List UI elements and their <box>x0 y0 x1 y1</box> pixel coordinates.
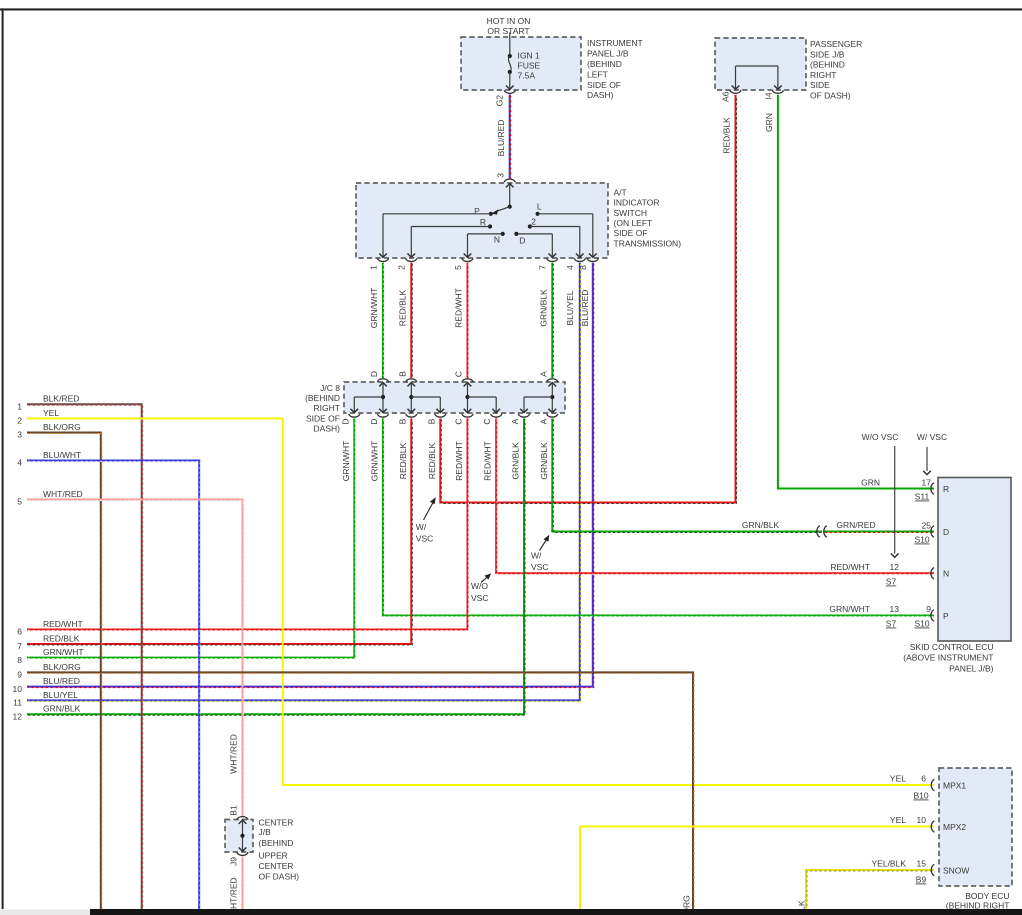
svg-text:RED/WHT: RED/WHT <box>454 288 464 328</box>
svg-text:GRN/WHT: GRN/WHT <box>369 288 379 329</box>
svg-text:B10: B10 <box>913 791 928 801</box>
center J/B label <box>259 818 300 882</box>
svg-text:GRN/BLK: GRN/BLK <box>43 704 81 714</box>
svg-text:VSC: VSC <box>416 534 433 544</box>
svg-text:GRN/BLK: GRN/BLK <box>511 442 521 480</box>
svg-text:WHT/RED: WHT/RED <box>229 734 239 774</box>
wire GRN passenger I4 to skid ECU R <box>778 95 934 489</box>
svg-text:D: D <box>519 235 525 245</box>
svg-text:PANEL J/B: PANEL J/B <box>587 49 629 59</box>
passenger J/B internal jumper <box>732 66 782 89</box>
switch internal wire P to pin 1 <box>379 214 491 257</box>
label 7 RED/BLK <box>17 633 79 651</box>
svg-text:VSC: VSC <box>471 593 488 603</box>
switch wiper from pin 3 <box>491 185 512 215</box>
svg-text:5: 5 <box>17 497 22 507</box>
svg-text:3: 3 <box>17 430 22 440</box>
wire 5 WHT/RED upper <box>27 500 243 817</box>
svg-text:DASH): DASH) <box>314 424 341 434</box>
svg-text:INSTRUMENT: INSTRUMENT <box>587 38 643 48</box>
svg-text:(ON LEFT: (ON LEFT <box>614 218 653 228</box>
body ECU pin MPX1 <box>931 779 966 790</box>
svg-text:SWITCH: SWITCH <box>614 208 648 218</box>
svg-text:RED/BLK: RED/BLK <box>722 117 732 154</box>
svg-text:GRN/BLK: GRN/BLK <box>539 442 549 480</box>
connector A bottom of J/C8 <box>547 414 558 417</box>
svg-text:RED/WHT: RED/WHT <box>43 619 83 629</box>
svg-text:7.5A: 7.5A <box>518 71 536 81</box>
svg-text:BLU/RED: BLU/RED <box>496 120 506 157</box>
instrument panel J/B label <box>587 38 643 100</box>
svg-text:D: D <box>340 418 350 424</box>
svg-text:BODY ECU: BODY ECU <box>965 891 1009 901</box>
svg-text:PASSENGER: PASSENGER <box>810 39 862 49</box>
switch internal wire R to pin 2 <box>408 227 491 258</box>
svg-text:IGN 1: IGN 1 <box>518 51 540 61</box>
svg-text:D: D <box>369 418 379 424</box>
skid control ECU label <box>903 642 993 673</box>
svg-text:11: 11 <box>13 698 22 708</box>
svg-text:MPX2: MPX2 <box>943 822 966 832</box>
svg-text:B: B <box>426 418 436 424</box>
switch contact L <box>536 202 542 216</box>
annotation W/O VSC at C2 corner <box>471 573 491 603</box>
label 9 BLK/ORG <box>17 662 81 680</box>
wire 4 BLU/WHT <box>27 461 200 910</box>
svg-text:S10: S10 <box>914 535 929 545</box>
connector pin 5 of A/T switch <box>462 258 473 261</box>
body ECU label <box>946 891 1010 911</box>
svg-text:GRN/WHT: GRN/WHT <box>370 441 380 482</box>
svg-text:DASH): DASH) <box>587 90 614 100</box>
svg-text:6: 6 <box>921 773 926 783</box>
svg-text:RED/BLK: RED/BLK <box>398 442 408 479</box>
svg-text:OF DASH): OF DASH) <box>810 91 851 101</box>
connector B top of J/C8 <box>406 379 417 387</box>
svg-text:C: C <box>454 418 464 424</box>
svg-text:BLU/YEL: BLU/YEL <box>43 690 78 700</box>
left page border <box>2 8 4 909</box>
svg-text:S10: S10 <box>914 619 929 629</box>
svg-text:2: 2 <box>531 216 536 226</box>
connector pin 8 of A/T switch <box>587 258 598 261</box>
svg-text:B: B <box>397 371 407 377</box>
svg-text:SIDE: SIDE <box>810 80 830 90</box>
switch internal wire L to pin 8 <box>538 214 597 257</box>
svg-text:A/T: A/T <box>614 187 627 197</box>
inline connector on D row <box>817 526 827 537</box>
svg-text:OR START: OR START <box>487 26 529 36</box>
switch contact N <box>494 232 505 245</box>
wire YEL/BLK to body ECU SNOW <box>806 870 935 915</box>
svg-text:10: 10 <box>13 684 23 694</box>
bottom scrollbar track <box>0 910 90 915</box>
svg-text:C: C <box>454 371 464 377</box>
svg-text:S7: S7 <box>886 577 897 587</box>
wire GRN/BLK A2 to inline connector <box>552 418 823 532</box>
svg-text:2: 2 <box>17 416 22 426</box>
svg-text:BLU/YEL: BLU/YEL <box>565 290 575 325</box>
labels YEL 10 <box>890 815 926 825</box>
svg-text:(BEHIND: (BEHIND <box>305 393 340 403</box>
svg-text:SIDE OF: SIDE OF <box>614 228 648 238</box>
svg-text:9: 9 <box>17 670 22 680</box>
connector A bottom of J/C8 <box>518 414 529 417</box>
label 5 WHT/RED <box>17 489 82 507</box>
svg-text:(BEHIND: (BEHIND <box>810 60 845 70</box>
svg-text:YEL/BLK: YEL/BLK <box>872 858 907 868</box>
svg-text:YEL: YEL <box>43 408 59 418</box>
svg-text:P: P <box>943 611 949 621</box>
connector I4 <box>772 90 783 93</box>
svg-text:BLK/RED: BLK/RED <box>43 394 79 404</box>
J/C8 internal branch B <box>408 383 445 413</box>
svg-text:GRN/WHT: GRN/WHT <box>829 604 870 614</box>
wire 3 BLK/ORG <box>27 433 102 910</box>
svg-text:8: 8 <box>17 655 22 665</box>
svg-text:W/: W/ <box>416 522 427 532</box>
svg-text:SIDE J/B: SIDE J/B <box>810 49 845 59</box>
svg-text:BLK/ORG: BLK/ORG <box>43 422 81 432</box>
svg-text:RED/BLK: RED/BLK <box>397 289 407 326</box>
label 10 BLU/RED <box>13 676 80 694</box>
wire GRN/BLK A1 to row12 <box>27 418 525 715</box>
switch contact 2 <box>528 216 536 228</box>
svg-text:GRN: GRN <box>861 477 880 487</box>
svg-text:(BEHIND: (BEHIND <box>259 838 294 848</box>
svg-text:LEFT: LEFT <box>587 69 608 79</box>
svg-text:BLK/ORG: BLK/ORG <box>43 662 81 672</box>
A/T indicator switch label <box>614 187 682 248</box>
connector A6 <box>730 90 741 93</box>
svg-text:GRN/RED: GRN/RED <box>836 520 875 530</box>
svg-text:S11: S11 <box>915 492 930 502</box>
svg-text:TRANSMISSION): TRANSMISSION) <box>614 238 682 248</box>
svg-text:A6: A6 <box>721 91 731 102</box>
svg-text:SKID CONTROL ECU: SKID CONTROL ECU <box>910 642 994 652</box>
svg-text:BLU/RED: BLU/RED <box>580 290 590 327</box>
connector D bottom of J/C8 <box>349 414 360 417</box>
annotation W/ VSC above skid ECU <box>917 432 947 475</box>
switch contact P <box>474 206 493 216</box>
svg-text:17: 17 <box>922 477 932 487</box>
wire RED/WHT C1 to row6 <box>27 418 468 630</box>
svg-text:C: C <box>482 418 492 424</box>
svg-text:7: 7 <box>538 265 548 270</box>
svg-text:J/C 8: J/C 8 <box>320 383 340 393</box>
wire GRN/RED inline connector to skid ECU D <box>824 531 935 534</box>
wire RED/BLK B2 to passenger J/B A6 <box>440 95 736 504</box>
wire GRN/WHT D2 to skid ECU P <box>383 418 935 616</box>
J/C 8 junction connector box <box>344 382 565 413</box>
svg-text:S7: S7 <box>886 619 897 629</box>
fuse output wire with arrow <box>506 72 514 89</box>
body ECU pin MPX2 <box>931 821 966 832</box>
svg-text:FUSE: FUSE <box>518 61 541 71</box>
svg-text:CENTER: CENTER <box>259 818 294 828</box>
svg-text:J/B: J/B <box>259 827 272 837</box>
svg-text:N: N <box>494 234 500 244</box>
center J/B internal wire <box>239 821 247 851</box>
label 11 BLU/YEL <box>13 690 78 708</box>
labels GRN 17 S11 <box>861 477 931 501</box>
labels RED/WHT 12 S7 <box>830 562 899 587</box>
svg-text:RED/BLK: RED/BLK <box>427 442 437 479</box>
labels GRN/BLK GRN/RED 25 S10 <box>742 520 931 545</box>
svg-text:9: 9 <box>926 604 931 614</box>
svg-text:CENTER: CENTER <box>259 861 294 871</box>
svg-text:25: 25 <box>922 520 932 530</box>
svg-text:INDICATOR: INDICATOR <box>614 198 660 208</box>
svg-text:B9: B9 <box>916 875 927 885</box>
body ECU box <box>939 768 1012 886</box>
svg-text:GRN/BLK: GRN/BLK <box>538 289 548 327</box>
label 4 BLU/WHT <box>17 450 81 468</box>
connector pin 2 of A/T switch <box>406 258 417 261</box>
connector pin 7 of A/T switch <box>547 258 558 261</box>
connector G2 <box>504 90 515 93</box>
svg-text:15: 15 <box>917 858 927 868</box>
connector C bottom of J/C8 <box>491 414 502 417</box>
connector pin 3 of A/T switch <box>504 179 515 187</box>
wire RED/BLK B1 to row7 <box>27 418 412 645</box>
svg-text:YEL: YEL <box>890 815 906 825</box>
skid ECU pin N <box>931 568 949 579</box>
svg-text:SNOW: SNOW <box>943 865 969 875</box>
instrument panel J/B box <box>461 37 581 90</box>
svg-text:W/: W/ <box>531 551 542 561</box>
svg-text:RIGHT: RIGHT <box>810 70 836 80</box>
connector D top of J/C8 <box>377 379 388 387</box>
svg-text:J9: J9 <box>229 857 239 866</box>
label 1 BLK/RED <box>17 394 79 412</box>
svg-text:YEL: YEL <box>890 773 906 783</box>
svg-text:R: R <box>480 217 486 227</box>
svg-text:R: R <box>943 484 949 494</box>
wire 5 WHT/RED lower <box>242 857 245 910</box>
J/C8 internal branch A <box>520 383 556 413</box>
svg-text:N: N <box>943 569 949 579</box>
switch internal wire D to pin 7 <box>516 234 556 257</box>
switch contact R <box>480 217 492 229</box>
bottom black bar <box>90 909 1022 915</box>
top page border <box>0 8 1022 10</box>
connector B bottom of J/C8 <box>435 414 446 417</box>
svg-text:4: 4 <box>565 265 575 270</box>
svg-text:BLU/WHT: BLU/WHT <box>43 450 81 460</box>
svg-text:B1: B1 <box>229 805 239 816</box>
svg-text:VSC: VSC <box>531 562 548 572</box>
skid ECU pin D <box>931 526 949 537</box>
svg-text:5: 5 <box>453 265 463 270</box>
svg-text:GRN/WHT: GRN/WHT <box>43 647 84 657</box>
svg-text:SIDE OF: SIDE OF <box>306 414 340 424</box>
connector D bottom of J/C8 <box>377 414 388 417</box>
wire BLU/RED vertical <box>509 95 512 180</box>
labels YEL 6 B10 <box>890 773 929 800</box>
svg-text:D: D <box>369 371 379 377</box>
label 6 RED/WHT <box>17 619 82 637</box>
switch internal wire 2 to pin 4 <box>530 227 584 258</box>
labels GRN/WHT 13 S7 9 S10 <box>829 604 931 628</box>
svg-text:W/O VSC: W/O VSC <box>862 432 899 442</box>
svg-text:BLU/RED: BLU/RED <box>43 676 80 686</box>
svg-text:4: 4 <box>17 458 22 468</box>
svg-text:G2: G2 <box>495 95 505 107</box>
connector C top of J/C8 <box>462 379 473 387</box>
J/C 8 label <box>305 383 340 434</box>
wire GRN/BLK pin7 <box>551 263 554 379</box>
svg-text:7: 7 <box>17 641 22 651</box>
svg-text:W/O: W/O <box>471 581 488 591</box>
svg-text:GRN: GRN <box>764 113 774 132</box>
svg-text:A: A <box>510 418 520 424</box>
label 12 GRN/BLK <box>13 704 81 722</box>
passenger side J/B label <box>810 39 862 101</box>
svg-text:(ABOVE INSTRUMENT: (ABOVE INSTRUMENT <box>903 653 993 663</box>
connector pin 4 of A/T switch <box>574 258 585 261</box>
svg-text:RED/BLK: RED/BLK <box>43 633 80 643</box>
svg-text:GRN/BLK: GRN/BLK <box>742 520 780 530</box>
passenger side J/B box <box>715 38 806 90</box>
svg-text:OF DASH): OF DASH) <box>259 871 300 881</box>
connector B1 of center J/B <box>237 817 248 824</box>
wire YEL to body ECU MPX2 <box>580 827 934 915</box>
J/C8 internal branch D <box>351 383 387 413</box>
svg-text:1: 1 <box>368 265 378 270</box>
A/T indicator switch box <box>356 183 608 258</box>
svg-text:12: 12 <box>13 712 23 722</box>
svg-text:PANEL J/B): PANEL J/B) <box>949 663 994 673</box>
wire 1 BLK/RED <box>27 404 143 910</box>
label 3 BLK/ORG <box>17 422 81 440</box>
wire BLU/YEL pin4 down to row11 <box>27 263 581 702</box>
switch internal wire N to pin 5 <box>464 234 503 257</box>
svg-text:L: L <box>537 202 542 212</box>
skid ECU pin R <box>931 483 949 494</box>
wire 2 YEL to body ECU MPX1 <box>27 419 934 786</box>
svg-text:RIGHT: RIGHT <box>314 403 340 413</box>
wire RED/WHT C2 to skid ECU N <box>496 418 935 574</box>
svg-text:GRN/WHT: GRN/WHT <box>341 441 351 482</box>
svg-text:3: 3 <box>495 173 505 178</box>
svg-text:A: A <box>538 371 548 377</box>
skid ECU pin P <box>931 610 949 621</box>
wire BLU/RED pin8 down to row10 <box>27 263 594 688</box>
svg-text:2: 2 <box>397 265 407 270</box>
svg-text:12: 12 <box>890 562 900 572</box>
annotation W/O VSC above skid ECU <box>862 432 899 557</box>
svg-text:13: 13 <box>890 604 900 614</box>
svg-text:MPX1: MPX1 <box>943 780 966 790</box>
svg-text:RED/WHT: RED/WHT <box>483 441 493 481</box>
skid control ECU box <box>938 478 1011 642</box>
wire GRN/WHT D1 to row8 <box>27 418 355 658</box>
svg-text:UPPER: UPPER <box>259 850 288 860</box>
fuse IGN 1 7.5A <box>508 51 541 81</box>
label 2 YEL <box>17 408 59 426</box>
connector C bottom of J/C8 <box>462 414 473 417</box>
svg-text:HOT IN ON: HOT IN ON <box>487 16 531 26</box>
wire RED/WHT pin5 <box>467 263 470 379</box>
switch contact D <box>514 232 525 246</box>
annotation W/ VSC at B2 corner <box>416 497 436 543</box>
svg-text:I4: I4 <box>763 92 773 99</box>
HOT IN ON OR START caption <box>487 16 531 36</box>
svg-text:(BEHIND: (BEHIND <box>587 59 622 69</box>
annotation W/ VSC at A2 corner <box>531 535 549 572</box>
feed wire into fuse <box>509 33 511 57</box>
svg-text:WHT/RED: WHT/RED <box>43 489 83 499</box>
svg-text:10: 10 <box>917 815 927 825</box>
svg-text:RED/WHT: RED/WHT <box>830 562 870 572</box>
wire 9 BLK/ORG <box>27 672 694 910</box>
svg-text:1: 1 <box>17 402 22 412</box>
connector B bottom of J/C8 <box>406 414 417 417</box>
label 8 GRN/WHT <box>17 647 83 665</box>
svg-text:SIDE OF: SIDE OF <box>587 80 621 90</box>
center J/B box <box>225 820 253 853</box>
labels YEL/BLK 15 B9 <box>872 858 927 884</box>
svg-text:D: D <box>943 527 949 537</box>
svg-text:W/ VSC: W/ VSC <box>917 432 947 442</box>
connector pin 1 of A/T switch <box>377 258 388 261</box>
J/C8 internal branch C <box>464 383 500 413</box>
svg-text:RED/WHT: RED/WHT <box>454 441 464 481</box>
wire GRN/WHT pin1 <box>382 263 385 379</box>
connector A top of J/C8 <box>547 379 558 387</box>
wire RED/BLK pin2 <box>410 263 413 379</box>
svg-text:A: A <box>538 418 548 424</box>
svg-text:B: B <box>397 418 407 424</box>
svg-text:6: 6 <box>17 627 22 637</box>
connector J9 of center J/B <box>237 852 248 855</box>
body ECU pin SNOW <box>931 864 969 875</box>
